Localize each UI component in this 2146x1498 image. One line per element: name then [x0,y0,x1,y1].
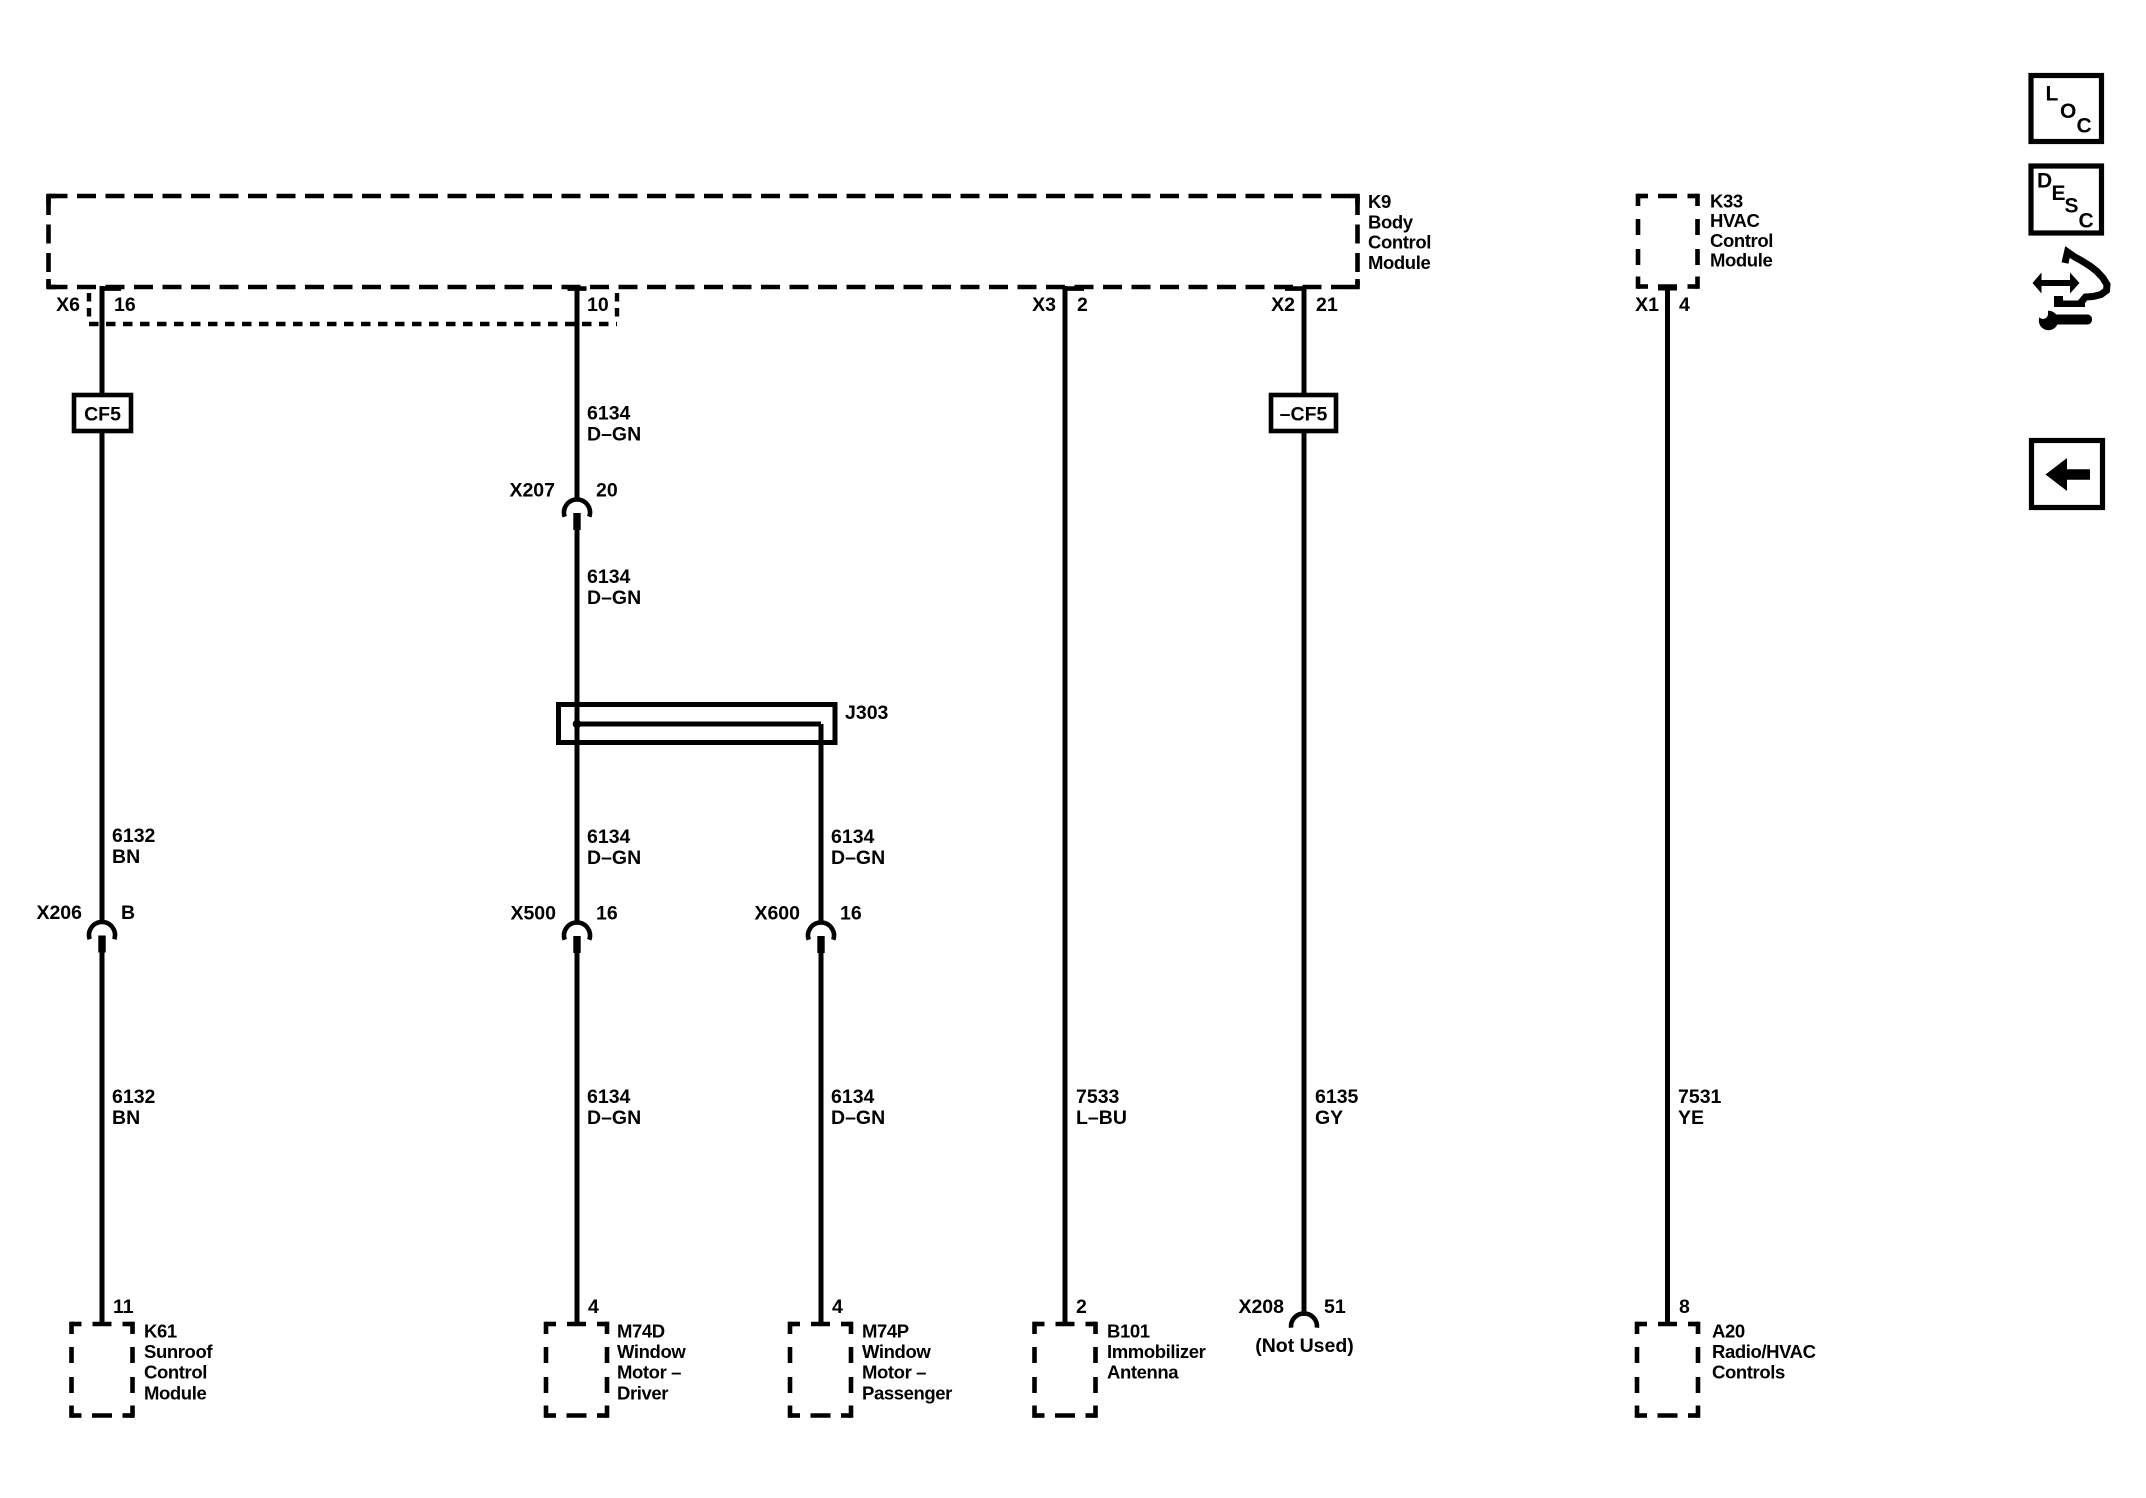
wire label 6134 D-GN (above M74D) [587,1086,641,1129]
inline connector X206 [89,922,115,953]
svg-text:X6: X6 [56,294,80,316]
svg-text:K9: K9 [1368,191,1391,212]
connector X207 label [509,480,555,502]
svg-text:Passenger: Passenger [862,1382,952,1403]
svg-text:GY: GY [1315,1107,1343,1129]
svg-text:Controls: Controls [1712,1362,1785,1383]
svg-text:4: 4 [832,1296,843,1318]
wire label 6132 BN (upper) [112,825,156,868]
module M74P Window Motor Passenger dashed box [790,1322,851,1418]
connector X208 label [1238,1296,1284,1318]
svg-text:D: D [2037,170,2052,193]
svg-text:Module: Module [1368,252,1430,273]
harness repair navigation icon (double arrow, connector outline, wrench) [2033,252,2108,330]
splice J303 label [845,702,889,724]
module A20 Radio/HVAC Controls dashed box [1637,1322,1698,1418]
wire label 7531 YE [1678,1086,1722,1129]
wire 7533 L-BU segment [1063,286,1068,1324]
module B101 Immobilizer Antenna dashed box [1035,1322,1096,1418]
wire 6132 BN segment X206 to K61 [100,952,105,1325]
inline connector X600 [808,922,834,953]
pin 20 label [596,480,618,502]
inline connector X207 [564,499,590,530]
svg-text:X3: X3 [1032,294,1056,316]
wire 6132 BN segment CF5 to X206 [100,431,105,922]
module K61 label [144,1321,213,1404]
svg-text:B101: B101 [1107,1321,1150,1342]
wire 7531 YE segment [1665,286,1670,1324]
svg-text:Driver: Driver [617,1382,668,1403]
pin cap X2-21 [1285,286,1305,291]
pin label X2 [1271,294,1295,316]
svg-text:Sunroof: Sunroof [144,1341,213,1362]
pin 4 label (X1) [1679,294,1690,316]
svg-text:Control: Control [144,1362,207,1383]
pin 10 label [587,294,609,316]
svg-text:Control: Control [1710,230,1773,251]
svg-text:8: 8 [1679,1296,1690,1318]
svg-text:M74D: M74D [617,1321,665,1342]
svg-text:YE: YE [1678,1107,1704,1129]
svg-text:7531: 7531 [1678,1086,1722,1108]
inline connector X500 [564,922,590,953]
svg-text:J303: J303 [845,702,889,724]
back arrow icon box [2032,441,2103,508]
wire 6134 D-GN segment J303 to X600 [819,724,824,923]
(Not Used) label [1255,1335,1354,1357]
svg-text:2: 2 [1077,294,1088,316]
wire label 6134 D-GN (below X207) [587,566,641,609]
svg-text:L–BU: L–BU [1076,1107,1127,1129]
svg-text:4: 4 [588,1296,599,1318]
module M74P label [862,1321,952,1404]
svg-text:O: O [2060,100,2076,123]
module K9 Body Control Module dashed box [49,196,1358,287]
connector X208 not-used arc [1291,1313,1317,1327]
connector code CF5 box [74,395,131,431]
pin 2 label (X3) [1077,294,1088,316]
pin 4 label (M74D) [588,1296,599,1318]
module K9 label [1368,191,1431,273]
module A20 label [1712,1321,1816,1383]
svg-text:16: 16 [596,903,618,925]
splice pack J303 [559,705,836,743]
pin 4 label (M74P) [832,1296,843,1318]
svg-text:BN: BN [112,1107,140,1129]
wire label 6134 D-GN (above X207) [587,403,641,446]
module B101 label [1107,1321,1206,1383]
svg-text:D–GN: D–GN [587,847,641,869]
pin label X3 [1032,294,1056,316]
pin cap X1-4 [1658,286,1677,291]
wire 6134 D-GN segment X500 to M74D [575,952,580,1324]
svg-text:10: 10 [587,294,609,316]
svg-text:6132: 6132 [112,825,156,847]
svg-text:21: 21 [1316,294,1338,316]
DESC icon box [2031,166,2102,233]
wire label 6134 D-GN (J303 right branch) [831,826,885,869]
pin 16 label (X500) [596,903,618,925]
wire 6135 GY segment -CF5 to X208 [1302,431,1307,1316]
pin label X1 [1635,294,1659,316]
pin 21 label [1316,294,1338,316]
svg-text:K61: K61 [144,1321,177,1342]
connector X600 label [754,903,800,925]
svg-text:L: L [2046,83,2059,106]
svg-text:Motor –: Motor – [862,1362,926,1383]
wire 6132 BN segment K9 to CF5 [100,286,105,396]
svg-text:BN: BN [112,846,140,868]
svg-text:4: 4 [1679,294,1690,316]
svg-text:Body: Body [1368,211,1414,232]
svg-text:D–GN: D–GN [831,847,885,869]
svg-text:Control: Control [1368,232,1431,253]
LOC icon box [2031,76,2102,142]
svg-text:X500: X500 [510,903,556,925]
svg-text:Module: Module [144,1382,206,1403]
svg-text:Radio/HVAC: Radio/HVAC [1712,1341,1816,1362]
svg-text:6134: 6134 [587,826,631,848]
pin 16 label (X600) [840,903,862,925]
svg-text:E: E [2052,182,2066,205]
svg-text:Window: Window [862,1341,931,1362]
svg-text:16: 16 [840,903,862,925]
svg-text:16: 16 [114,294,136,316]
svg-text:6134: 6134 [587,1086,631,1108]
svg-text:Motor –: Motor – [617,1362,681,1383]
wire label 6134 D-GN (J303 left branch) [587,826,641,869]
connector X206 label [36,902,82,924]
svg-text:A20: A20 [1712,1321,1745,1342]
pin cap pin10 [568,286,587,291]
pin 16 label [114,294,136,316]
svg-text:X2: X2 [1271,294,1295,316]
svg-text:B: B [121,902,135,924]
svg-text:6134: 6134 [831,1086,875,1108]
wire label 7533 L-BU [1076,1086,1127,1129]
module K33 label [1710,191,1773,271]
svg-text:D–GN: D–GN [831,1107,885,1129]
svg-text:6135: 6135 [1315,1086,1359,1108]
svg-text:Window: Window [617,1341,686,1362]
pin 8 label [1679,1296,1690,1318]
svg-text:20: 20 [596,480,618,502]
svg-text:D–GN: D–GN [587,1107,641,1129]
svg-text:C: C [2077,115,2092,138]
svg-text:6134: 6134 [587,566,631,588]
connector face X6 dotted bracket [89,293,617,324]
wire 6134 D-GN segment K9 to X207 [575,286,580,500]
svg-text:X206: X206 [36,902,82,924]
pin cap X6-16 [101,286,121,291]
svg-text:Immobilizer: Immobilizer [1107,1341,1206,1362]
module K61 Sunroof Control Module dashed box [72,1322,133,1418]
svg-text:D–GN: D–GN [587,424,641,446]
svg-text:C: C [2079,210,2094,233]
wire 6134 D-GN segment J303 to X500 [575,742,580,923]
module K33 HVAC Control Module dashed box [1638,194,1698,289]
svg-text:6134: 6134 [587,403,631,425]
svg-text:S: S [2065,195,2079,218]
pin 2 label (B101) [1076,1296,1087,1318]
pin label X6 [56,294,80,316]
svg-text:HVAC: HVAC [1710,210,1759,231]
svg-text:(Not Used): (Not Used) [1255,1335,1354,1357]
svg-text:Antenna: Antenna [1107,1362,1179,1383]
svg-text:–CF5: –CF5 [1280,404,1328,426]
svg-text:7533: 7533 [1076,1086,1120,1108]
svg-text:6132: 6132 [112,1086,156,1108]
wire 6134 D-GN segment X207 to J303 [575,529,580,742]
svg-text:X600: X600 [754,903,800,925]
pin B label [121,902,135,924]
pin 11 label [113,1296,134,1318]
pin 51 label [1324,1296,1346,1318]
module M74D Window Motor Driver dashed box [546,1322,607,1418]
svg-text:2: 2 [1076,1296,1087,1318]
svg-text:K33: K33 [1710,191,1743,212]
svg-text:51: 51 [1324,1296,1346,1318]
svg-text:X1: X1 [1635,294,1659,316]
svg-text:X208: X208 [1238,1296,1284,1318]
svg-text:Module: Module [1710,250,1772,271]
wire 6134 D-GN segment X600 to M74P [819,952,824,1324]
wire label 6134 D-GN (above M74P) [831,1086,885,1129]
wire 6135 GY segment K9 to -CF5 [1302,286,1307,396]
svg-text:X207: X207 [509,480,555,502]
wire label 6132 BN (lower) [112,1086,156,1129]
svg-text:11: 11 [113,1296,134,1318]
svg-text:CF5: CF5 [84,404,121,426]
pin cap X3-2 [1064,286,1084,291]
svg-text:6134: 6134 [831,826,875,848]
svg-text:D–GN: D–GN [587,587,641,609]
connector X500 label [510,903,556,925]
module M74D label [617,1321,686,1404]
connector code -CF5 box [1271,395,1336,431]
wire label 6135 GY [1315,1086,1359,1129]
svg-text:M74P: M74P [862,1321,909,1342]
